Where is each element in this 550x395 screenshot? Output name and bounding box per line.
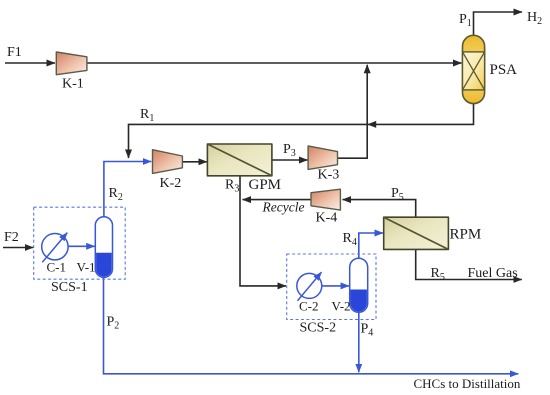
svg-text:K-2: K-2: [160, 176, 182, 191]
svg-text:V-2: V-2: [332, 299, 351, 314]
svg-text:R4: R4: [343, 231, 357, 248]
svg-text:V-1: V-1: [77, 260, 96, 275]
svg-text:SCS-1: SCS-1: [51, 280, 88, 295]
svg-text:P3: P3: [283, 142, 296, 159]
svg-text:R1: R1: [140, 107, 154, 124]
svg-text:K-1: K-1: [62, 77, 84, 92]
svg-text:K-4: K-4: [316, 211, 338, 226]
svg-text:CHCs to Distillation: CHCs to Distillation: [414, 376, 521, 391]
svg-text:R5: R5: [431, 266, 445, 283]
svg-text:C-1: C-1: [47, 260, 67, 275]
svg-text:K-3: K-3: [318, 168, 340, 183]
svg-text:Fuel Gas: Fuel Gas: [468, 266, 518, 281]
svg-text:R3: R3: [225, 178, 239, 195]
svg-text:P2: P2: [107, 315, 120, 332]
svg-text:P5: P5: [391, 186, 404, 203]
svg-text:SCS-2: SCS-2: [300, 321, 337, 336]
svg-text:Recycle: Recycle: [262, 200, 305, 215]
svg-text:C-2: C-2: [299, 299, 319, 314]
svg-text:RPM: RPM: [450, 227, 482, 243]
svg-text:P4: P4: [361, 322, 374, 339]
svg-text:F1: F1: [7, 45, 22, 60]
svg-text:P1: P1: [459, 12, 472, 29]
svg-text:R2: R2: [109, 186, 123, 203]
svg-text:GPM: GPM: [249, 177, 282, 193]
svg-text:F2: F2: [4, 230, 19, 245]
svg-text:PSA: PSA: [490, 62, 518, 78]
svg-text:H2: H2: [527, 10, 542, 27]
